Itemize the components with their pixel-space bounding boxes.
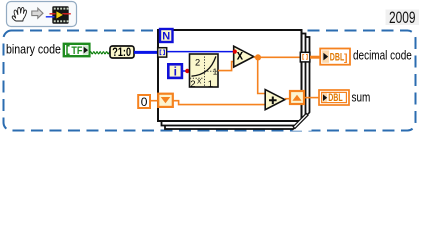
wire 0 to shift register: [150, 100, 158, 102]
wire junction: [255, 54, 261, 60]
svg-text:DBL: DBL: [330, 51, 345, 63]
svg-text:X: X: [197, 79, 202, 86]
sum scalar indicator: [319, 90, 349, 105]
coercion dot on function input: [185, 69, 189, 73]
VI film icon: [46, 6, 71, 23]
svg-text:2: 2: [190, 79, 195, 90]
N count terminal: [160, 29, 173, 42]
svg-text:]: ]: [344, 52, 348, 64]
multiply node: [234, 46, 254, 67]
svg-text:decimal code: decimal code: [353, 50, 412, 63]
svg-text:N: N: [162, 30, 170, 42]
right auto-index tunnel: [300, 52, 310, 62]
shift register left terminal: [158, 94, 173, 107]
power-of-2 function: [190, 54, 219, 90]
wire shift register to add lower input: [173, 101, 265, 105]
svg-text:x: x: [237, 48, 243, 63]
blue scalar wire tunnel to multiply: [167, 51, 234, 53]
svg-text:0: 0: [141, 95, 148, 109]
numeric constant 0: [138, 95, 150, 109]
coercion dot on multiply upper input: [233, 50, 237, 54]
page-curl fold lines: [292, 112, 310, 130]
hand tool icon: [12, 7, 26, 21]
svg-text:1: 1: [213, 68, 218, 77]
add node: [265, 90, 285, 110]
for-loop sheet 2 (middle): [162, 34, 306, 126]
2009 year label: [386, 10, 420, 26]
decimal code array indicator: [320, 49, 350, 65]
svg-text:DBL: DBL: [328, 91, 343, 103]
boolean-to-(0,1) node ?1:0: [110, 46, 134, 60]
svg-text:i: i: [174, 64, 177, 78]
left auto-index tunnel: [158, 48, 167, 57]
for-loop front frame: [158, 30, 302, 121]
thick orange array wire to decimal indicator: [310, 56, 320, 59]
toolbar panel: [7, 2, 77, 27]
shift register right terminal: [290, 91, 304, 104]
orange wire multiply to right tunnel: [254, 56, 301, 58]
orange wire function to multiply lower input: [218, 62, 234, 71]
page-curl corner erase: [292, 111, 312, 131]
svg-text:2009: 2009: [389, 9, 416, 27]
svg-text:sum: sum: [352, 91, 371, 104]
svg-text:TF: TF: [71, 45, 82, 57]
blue array wire to tunnel: [134, 51, 158, 54]
i iteration terminal: [168, 64, 182, 78]
svg-text:?1:0: ?1:0: [112, 46, 131, 60]
wire add to shift register right: [285, 98, 290, 100]
next arrow icon: [32, 8, 43, 18]
wire shift register to sum indicator: [304, 97, 319, 99]
svg-text:2: 2: [195, 58, 200, 68]
boolean array control [TF]: [64, 44, 90, 57]
dashed selection border: [4, 31, 416, 131]
for-loop sheet 3 (back): [165, 37, 310, 129]
branch wire down to add: [258, 57, 266, 93]
boolean array wire (zigzag): [90, 52, 111, 54]
blue stub i to function: [182, 70, 190, 72]
svg-text:1: 1: [208, 79, 213, 90]
svg-text:binary code: binary code: [6, 43, 61, 57]
